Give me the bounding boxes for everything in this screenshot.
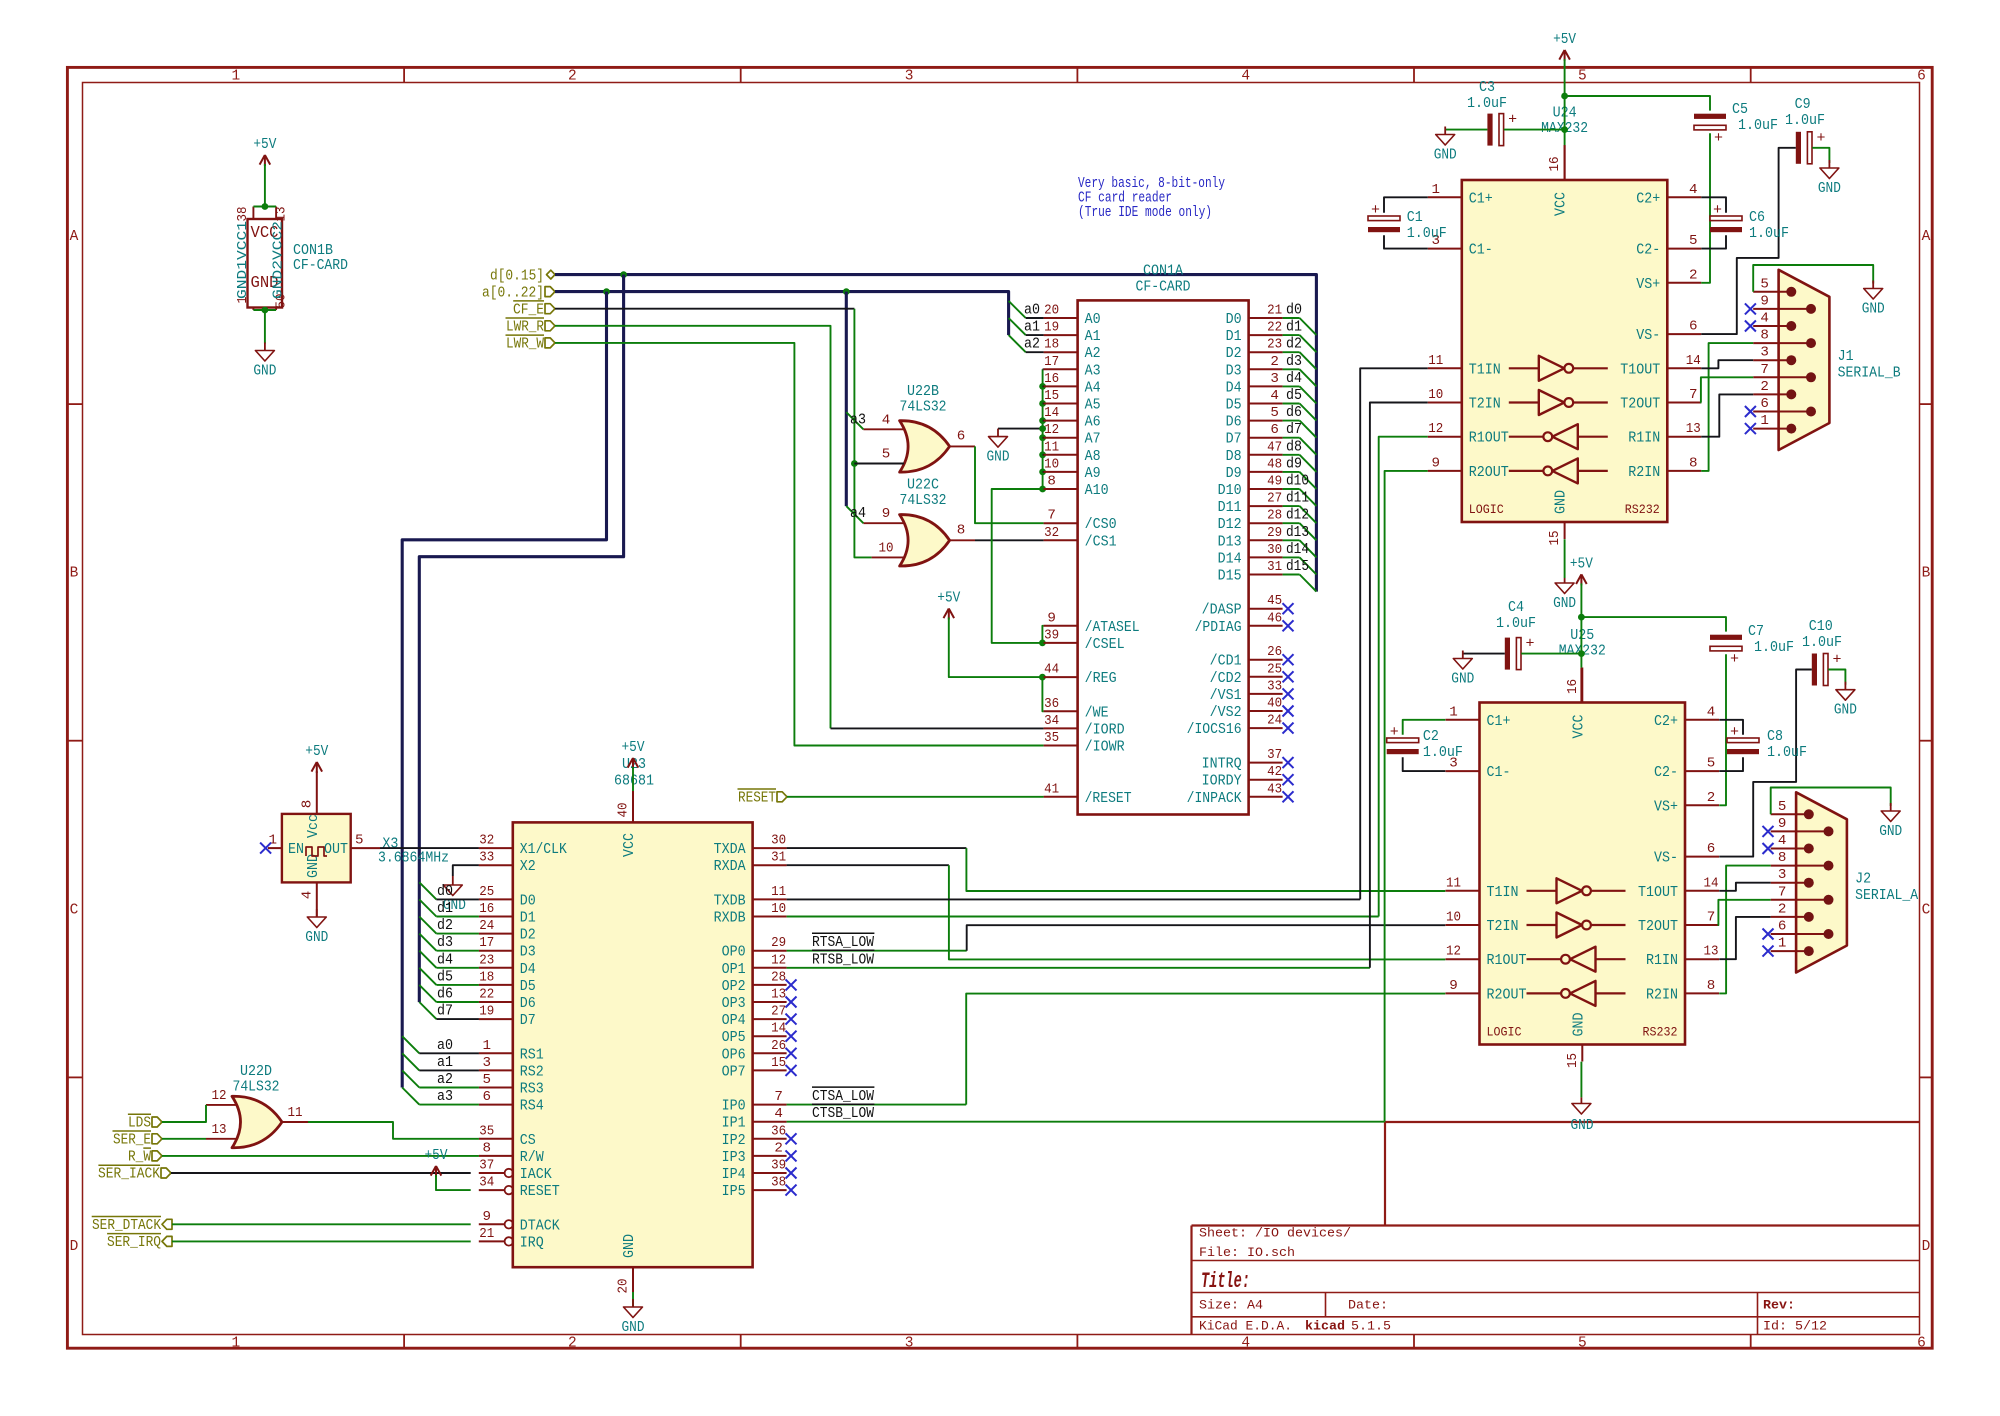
junction [1578, 614, 1585, 621]
wire [975, 446, 1044, 523]
svg-text:d5: d5 [1286, 386, 1302, 404]
pin 17 D3 [479, 950, 513, 952]
bus entry [402, 1070, 419, 1087]
svg-text:5: 5 [1578, 1336, 1587, 1352]
pin 33 /VS1 [1249, 693, 1283, 695]
bus entry [1300, 404, 1317, 421]
pin 5 RS3 [479, 1087, 513, 1089]
pin 23 D4 [479, 967, 513, 969]
junction [843, 288, 850, 295]
pin 7 T2OUT [1667, 402, 1701, 404]
title block outline [1385, 1121, 1920, 1123]
svg-text:a2: a2 [437, 1070, 453, 1088]
pin 36 IP2 [753, 1138, 787, 1140]
wire [1463, 653, 1505, 655]
svg-text:GND: GND [987, 450, 1010, 466]
svg-text:7: 7 [1689, 387, 1698, 403]
junction [1039, 451, 1046, 458]
or-gate U22B pin 4 [863, 428, 904, 430]
svg-text:15: 15 [1547, 531, 1563, 546]
svg-text:2: 2 [568, 1336, 577, 1352]
svg-text:R_W: R_W [128, 1148, 152, 1166]
pin 26 OP6 [753, 1052, 787, 1054]
svg-text:2: 2 [1689, 267, 1698, 283]
pin 48 D9 [1249, 471, 1283, 473]
wire [1379, 437, 1428, 917]
svg-text:1: 1 [1778, 936, 1787, 952]
pin 21 D0 [1249, 317, 1283, 319]
wire [436, 950, 479, 952]
svg-text:SER_DTACK: SER_DTACK [92, 1216, 162, 1234]
pin 5 C2- [1667, 248, 1701, 250]
pin 2 VS+ [1667, 282, 1701, 284]
svg-text:10: 10 [771, 901, 786, 917]
wire [436, 1018, 479, 1020]
wire [555, 326, 831, 729]
svg-text:9: 9 [1760, 293, 1769, 309]
svg-text:d0: d0 [437, 882, 453, 900]
svg-text:d1: d1 [437, 899, 453, 917]
svg-text:D6: D6 [1226, 414, 1242, 431]
wire [949, 865, 1445, 959]
svg-text:10: 10 [879, 540, 894, 556]
bus entry [1300, 386, 1317, 403]
bus entry [1300, 421, 1317, 438]
wire [1283, 471, 1300, 473]
svg-text:GND: GND [1553, 596, 1576, 612]
svg-text:GND1VCC1: GND1VCC1 [236, 221, 251, 299]
svg-text:+: + [1730, 724, 1739, 741]
svg-text:12: 12 [1044, 422, 1059, 438]
svg-text:35: 35 [1044, 730, 1059, 746]
no-connect [1763, 929, 1774, 940]
svg-text:d6: d6 [437, 985, 453, 1003]
svg-text:36: 36 [771, 1123, 786, 1139]
svg-text:LWR_W: LWR_W [506, 335, 545, 353]
pin 8 R/W [479, 1155, 513, 1157]
svg-text:D4: D4 [520, 961, 536, 978]
svg-text:13: 13 [275, 207, 290, 222]
svg-text:LDS: LDS [128, 1114, 151, 1132]
svg-text:GND: GND [253, 364, 276, 380]
pin 10 A9 [1044, 471, 1078, 473]
pin 35 /IOWR [1044, 745, 1078, 747]
inverter [1570, 981, 1596, 1006]
bus entry [402, 1088, 419, 1105]
wire [555, 343, 1044, 746]
svg-text:VS-: VS- [1636, 327, 1660, 344]
wire [436, 984, 479, 986]
wire [1283, 437, 1300, 439]
bus entry [1300, 455, 1317, 472]
pin 37 IACK [479, 1172, 505, 1174]
connector J2 SERIAL_A body [1796, 792, 1847, 972]
svg-text:SER_IRQ: SER_IRQ [107, 1233, 161, 1251]
bus entry [419, 985, 436, 1002]
wire [949, 618, 1043, 678]
pin 7 IP0 [753, 1104, 787, 1106]
svg-text:2: 2 [1270, 354, 1279, 370]
bus entry [1300, 557, 1317, 574]
junction [1039, 674, 1046, 681]
pin 22 D6 [479, 1001, 513, 1003]
svg-text:Vcc: Vcc [305, 814, 322, 838]
pin 37 INTRQ [1249, 762, 1283, 764]
svg-text:Sheet: /IO devices/: Sheet: /IO devices/ [1199, 1226, 1351, 1241]
wire [1360, 368, 1428, 899]
svg-text:8: 8 [483, 1140, 492, 1156]
svg-text:3: 3 [483, 1055, 492, 1071]
svg-text:A4: A4 [1085, 379, 1101, 396]
svg-text:7: 7 [1047, 508, 1056, 524]
svg-text:/WE: /WE [1085, 704, 1109, 721]
border row ticks left [67, 403, 82, 405]
bus entry [1300, 575, 1317, 592]
capacitor C5 [1694, 114, 1726, 119]
svg-text:a2: a2 [1024, 335, 1040, 353]
svg-text:4: 4 [1689, 182, 1698, 198]
ic U24 pin 16 VCC [1564, 145, 1566, 180]
svg-text:d12: d12 [1286, 506, 1309, 524]
wire [1370, 403, 1428, 968]
wire [264, 310, 266, 344]
svg-text:/DASP: /DASP [1202, 602, 1242, 619]
pin 2 VS+ [1685, 804, 1719, 806]
svg-text:5: 5 [1707, 756, 1716, 772]
svg-text:d2: d2 [1286, 335, 1302, 353]
bus entry [1300, 489, 1317, 506]
svg-text:D5: D5 [520, 978, 536, 995]
ground [1462, 651, 1464, 659]
svg-text:1: 1 [269, 833, 278, 849]
wire [555, 308, 854, 310]
wire [253, 309, 276, 311]
wire [787, 796, 1044, 798]
svg-text:29: 29 [1267, 525, 1282, 541]
svg-text:27: 27 [771, 1004, 786, 1020]
no-connect [1745, 303, 1756, 314]
bus entry [846, 506, 863, 523]
pin 14 T1OUT [1667, 367, 1701, 369]
pin 34 RESET [479, 1189, 505, 1191]
svg-text:43: 43 [1267, 781, 1282, 797]
inverter [1557, 913, 1583, 938]
no-connect [1283, 706, 1294, 717]
connector J1 pin 7 [1753, 376, 1811, 378]
wire [966, 848, 1445, 891]
ground [1444, 127, 1446, 135]
no-connect [786, 1185, 797, 1196]
or-gate U22D pin 13 [206, 1138, 237, 1140]
bus entry [419, 917, 436, 934]
wire [1283, 556, 1300, 558]
svg-text:+5V: +5V [253, 137, 276, 153]
wire [1283, 539, 1300, 541]
svg-text:RS232: RS232 [1643, 1025, 1678, 1040]
pin 43 /INPACK [1249, 796, 1283, 798]
svg-text:IP5: IP5 [722, 1183, 746, 1200]
svg-text:17: 17 [1044, 354, 1059, 370]
pin 15 A5 [1044, 403, 1078, 405]
svg-text:9: 9 [882, 506, 891, 522]
svg-text:39: 39 [771, 1158, 786, 1174]
svg-text:19: 19 [1044, 320, 1059, 336]
ground [1890, 803, 1892, 811]
svg-text:74LS32: 74LS32 [900, 398, 947, 416]
no-connect [786, 1150, 797, 1161]
no-connect [1763, 946, 1774, 957]
svg-text:R2IN: R2IN [1646, 986, 1678, 1003]
svg-text:Title:: Title: [1201, 1269, 1250, 1294]
pin 13 R1IN [1667, 436, 1701, 438]
svg-text:1.0uF: 1.0uF [1738, 116, 1778, 134]
wire [1701, 394, 1753, 436]
pin 1 C1+ [1446, 719, 1480, 721]
oscillator X3 pin 8 Vcc [316, 771, 318, 814]
svg-text:12: 12 [1428, 421, 1443, 437]
wire [1042, 626, 1043, 643]
or-gate U22D pin 11 [282, 1121, 308, 1123]
ground for U25 [1580, 1097, 1582, 1103]
svg-text:20: 20 [1044, 303, 1059, 319]
svg-text:13: 13 [1704, 944, 1719, 960]
pin 34 /IORD [1044, 727, 1078, 729]
svg-text:+: + [1816, 130, 1825, 147]
bus entry [1009, 301, 1026, 318]
svg-text:+: + [1730, 651, 1739, 668]
inverter [1557, 878, 1583, 903]
bus wire [845, 292, 848, 507]
svg-text:A2: A2 [1085, 345, 1101, 362]
svg-text:D1: D1 [520, 910, 536, 927]
wire [1026, 317, 1044, 319]
ground for U23 [632, 1299, 634, 1307]
svg-text:1: 1 [1449, 704, 1458, 720]
svg-text:+: + [1390, 724, 1399, 741]
connector J1 pin 4 [1753, 325, 1791, 327]
svg-text:37: 37 [479, 1158, 494, 1174]
wire [787, 1104, 967, 1106]
no-connect [786, 1065, 797, 1076]
capacitor C3 [1487, 114, 1492, 146]
svg-text:2: 2 [1707, 790, 1716, 806]
svg-text:27: 27 [1267, 491, 1282, 507]
svg-text:1: 1 [1432, 182, 1441, 198]
svg-text:/CS0: /CS0 [1085, 516, 1117, 533]
svg-text:D: D [70, 1239, 79, 1255]
wire [162, 1155, 479, 1157]
border column ticks top [403, 67, 405, 82]
svg-text:D12: D12 [1218, 516, 1242, 533]
no-connect [1745, 321, 1756, 332]
svg-text:D11: D11 [1218, 499, 1242, 516]
svg-text:D6: D6 [520, 995, 536, 1012]
svg-text:a3: a3 [437, 1087, 453, 1105]
svg-text:3: 3 [1778, 867, 1787, 883]
or-gate U22C pin 10 [872, 556, 904, 558]
wire [1719, 866, 1771, 994]
svg-text:5: 5 [882, 447, 891, 463]
svg-text:15: 15 [1044, 388, 1059, 404]
svg-text:4: 4 [1778, 833, 1787, 849]
wire [1719, 670, 1812, 857]
no-connect [1283, 757, 1294, 768]
svg-text:34: 34 [479, 1175, 494, 1191]
pin 47 D8 [1249, 454, 1283, 456]
svg-text:21: 21 [1267, 303, 1282, 319]
ic U23 pin 40 VCC [632, 791, 634, 822]
pin 27 OP4 [753, 1018, 787, 1020]
svg-text:SER_IACK: SER_IACK [98, 1165, 161, 1183]
svg-text:8: 8 [1707, 978, 1716, 994]
pin 6 RS4 [479, 1104, 513, 1106]
svg-text:/IOCS16: /IOCS16 [1187, 721, 1242, 738]
ic U23 pin 20 GND [632, 1267, 634, 1292]
wire [436, 1175, 471, 1190]
bus entry [1009, 318, 1026, 335]
svg-text:10: 10 [1428, 387, 1443, 403]
pin 4 C2+ [1667, 196, 1701, 198]
svg-text:a0: a0 [1024, 301, 1040, 319]
svg-text:31: 31 [1267, 559, 1282, 575]
wire [967, 925, 1446, 951]
svg-text:D3: D3 [1226, 362, 1242, 379]
bus entry [1300, 523, 1317, 540]
pin 16 A4 [1044, 385, 1078, 387]
svg-text:/CS1: /CS1 [1085, 533, 1117, 550]
svg-text:13: 13 [212, 1122, 227, 1138]
pin 35 CS [479, 1138, 513, 1140]
pin 16 D1 [479, 916, 513, 918]
bus entry [419, 934, 436, 951]
svg-text:C2+: C2+ [1654, 713, 1678, 730]
pin 29 D13 [1249, 539, 1283, 541]
svg-text:A: A [70, 229, 79, 245]
svg-text:10: 10 [1044, 456, 1059, 472]
svg-text:RTSA_LOW: RTSA_LOW [812, 933, 875, 951]
svg-text:d[0.15]: d[0.15] [490, 266, 544, 284]
connector J1 pin 8 [1753, 342, 1811, 344]
svg-text:RS3: RS3 [520, 1081, 544, 1098]
pin 6 VS- [1667, 333, 1701, 335]
connector CON1B pin 38 [252, 207, 254, 220]
svg-text:26: 26 [1267, 644, 1282, 660]
svg-text:6: 6 [1917, 69, 1926, 85]
svg-text:C1-: C1- [1469, 242, 1493, 259]
svg-text:VCC: VCC [1553, 192, 1570, 216]
svg-text:+: + [1713, 202, 1722, 219]
svg-text:+5V: +5V [1553, 32, 1576, 48]
svg-text:GND: GND [1818, 181, 1841, 197]
connector J2 pin 1 [1771, 950, 1809, 952]
svg-text:LWR_R: LWR_R [506, 318, 544, 336]
svg-text:7: 7 [774, 1089, 783, 1105]
junction [1039, 425, 1046, 432]
junction [1561, 126, 1568, 133]
pin 25 /CD2 [1249, 676, 1283, 678]
svg-text:1.0uF: 1.0uF [1407, 224, 1447, 242]
pin 42 IORDY [1249, 779, 1283, 781]
svg-text:D2: D2 [520, 927, 536, 944]
svg-text:C1-: C1- [1487, 764, 1511, 781]
pin 12 OP1 [753, 967, 787, 969]
svg-text:T1IN: T1IN [1487, 884, 1519, 901]
wire [1283, 368, 1300, 370]
svg-text:D15: D15 [1218, 568, 1242, 585]
bus wire [402, 292, 606, 1088]
wire [1043, 385, 1044, 387]
pin 9 R2OUT [1446, 992, 1480, 994]
bus entry [419, 951, 436, 968]
pin 29 OP0 [753, 950, 787, 952]
svg-text:GND: GND [1434, 148, 1457, 164]
pin 7 T2OUT [1685, 924, 1719, 926]
wire [1701, 197, 1726, 212]
pin 4 C2+ [1685, 719, 1719, 721]
wire [632, 767, 634, 791]
svg-text:CF_E: CF_E [513, 300, 544, 318]
pin 20 A0 [1044, 317, 1078, 319]
svg-text:/RESET: /RESET [1085, 790, 1132, 807]
svg-text:6: 6 [1707, 841, 1716, 857]
svg-text:38: 38 [236, 207, 251, 222]
ground [997, 429, 999, 437]
svg-text:GND: GND [622, 1320, 645, 1336]
svg-text:KiCad E.D.A.: KiCad E.D.A. [1199, 1319, 1292, 1334]
pin 12 R1OUT [1428, 436, 1462, 438]
bus entry [402, 1053, 419, 1070]
pin 31 RXDA [753, 864, 787, 866]
ic U25 pin 15 GND [1581, 1045, 1583, 1062]
svg-text:IP4: IP4 [722, 1166, 746, 1183]
connector J1 pin 1 [1753, 428, 1791, 430]
svg-text:11: 11 [1446, 875, 1461, 891]
bus entry [419, 1002, 436, 1019]
inverter [1552, 424, 1578, 449]
svg-text:TXDB: TXDB [714, 892, 746, 909]
svg-text:47: 47 [1267, 439, 1282, 455]
wire [419, 1104, 479, 1106]
svg-text:14: 14 [771, 1021, 786, 1037]
wire [1283, 403, 1300, 405]
wire [1026, 351, 1044, 353]
ic U25 pin16 stub [1580, 668, 1582, 703]
capacitor C8 [1727, 738, 1759, 743]
svg-text:D2: D2 [1226, 345, 1242, 362]
svg-text:35: 35 [479, 1123, 494, 1139]
svg-text:GND: GND [1570, 1013, 1587, 1037]
wire [632, 1292, 634, 1307]
svg-text:9: 9 [1449, 978, 1458, 994]
wire [975, 539, 1044, 541]
svg-text:D10: D10 [1218, 482, 1242, 499]
pin 10 T2IN [1446, 924, 1480, 926]
wire [380, 847, 479, 849]
pin 3 C1- [1428, 248, 1462, 250]
ground [1844, 682, 1846, 690]
ground [264, 343, 266, 351]
svg-text:8: 8 [1760, 328, 1769, 344]
svg-text:D1: D1 [1226, 328, 1242, 345]
svg-text:46: 46 [1267, 610, 1282, 626]
no-connect [260, 843, 271, 854]
svg-text:VS-: VS- [1654, 850, 1678, 867]
wire [1719, 654, 1726, 805]
svg-text:OP4: OP4 [722, 1012, 746, 1029]
pin 13 OP3 [753, 1001, 787, 1003]
svg-text:24: 24 [479, 918, 494, 934]
wire [162, 1105, 206, 1122]
